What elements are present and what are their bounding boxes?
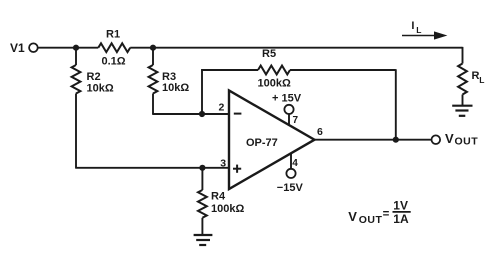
svg-text:100kΩ: 100kΩ [258, 77, 291, 89]
svg-text:10kΩ: 10kΩ [162, 82, 189, 94]
svg-text:4: 4 [292, 158, 298, 169]
svg-text:0.1Ω: 0.1Ω [102, 56, 126, 68]
svg-text:1V: 1V [393, 199, 408, 213]
svg-text:+ 15V: + 15V [272, 93, 302, 105]
svg-text:1A: 1A [393, 212, 409, 226]
svg-text:R4: R4 [211, 191, 226, 203]
svg-text:10kΩ: 10kΩ [87, 82, 114, 94]
svg-text:V1: V1 [10, 41, 25, 55]
svg-text:R2: R2 [87, 71, 101, 83]
svg-text:R: R [472, 70, 480, 82]
svg-text:2: 2 [219, 102, 225, 114]
svg-text:7: 7 [293, 115, 299, 126]
svg-text:V: V [348, 209, 357, 224]
svg-text:−15V: −15V [277, 182, 304, 194]
svg-text:=: = [383, 208, 390, 220]
svg-text:L: L [416, 25, 421, 35]
svg-text:OUT: OUT [359, 214, 383, 226]
svg-text:R1: R1 [106, 29, 120, 41]
svg-text:V: V [445, 131, 454, 146]
svg-text:L: L [479, 75, 484, 85]
svg-text:OP-77: OP-77 [246, 137, 278, 149]
svg-text:6: 6 [317, 126, 323, 138]
svg-text:I: I [411, 20, 414, 32]
svg-text:OUT: OUT [455, 136, 479, 148]
svg-text:100kΩ: 100kΩ [211, 203, 244, 215]
svg-text:3: 3 [220, 157, 226, 169]
svg-text:R5: R5 [262, 48, 276, 60]
